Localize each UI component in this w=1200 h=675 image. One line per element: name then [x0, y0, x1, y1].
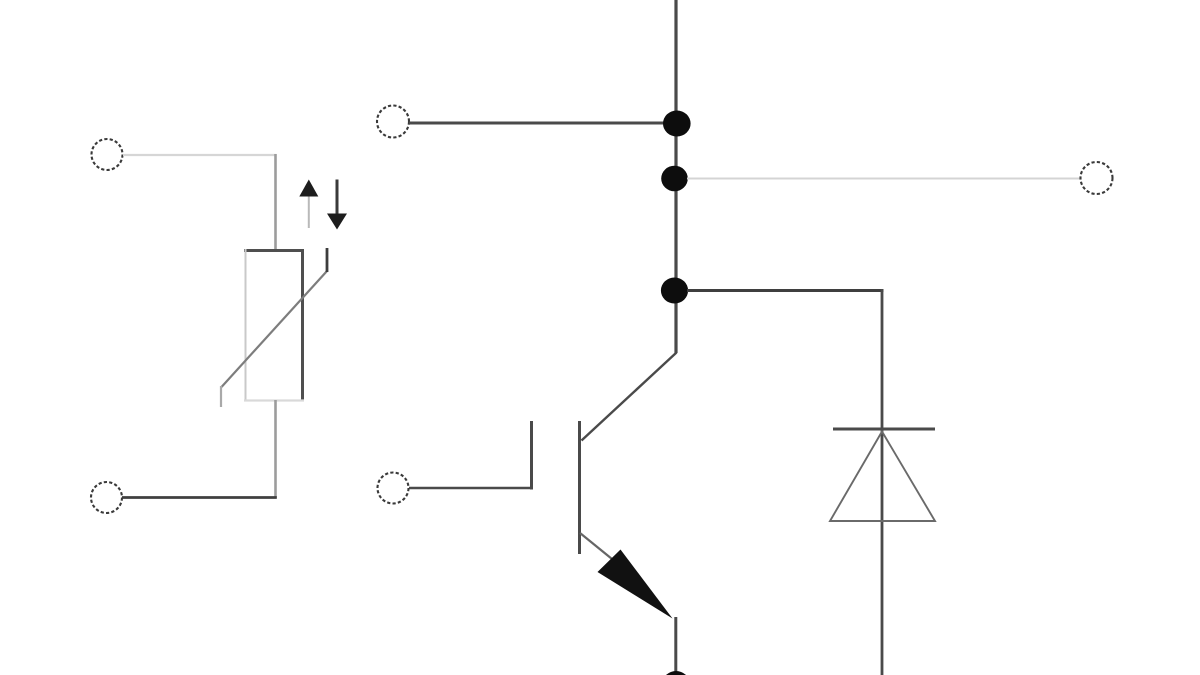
IGBT Q1: gate bar	[530, 421, 533, 490]
junction dot node E (bottom, clipped)	[663, 671, 690, 675]
IGBT Q1: emitter arrowhead	[598, 550, 673, 619]
wire: thermistor bottom vertical riser	[274, 400, 277, 498]
IGBT Q1: collector diagonal	[582, 353, 677, 441]
wire: thermistor top vertical riser	[274, 154, 277, 251]
wire: main collector bus vertical from top edge down to collector diagonal	[674, 0, 677, 353]
thermistor diagonal top tick	[326, 248, 329, 272]
wire: diode branch vertical down to bottom edge	[881, 289, 884, 675]
thermistor R1 body rectangle: top edge	[244, 249, 304, 252]
wire: thermistor top horizontal (light gray)	[123, 154, 277, 156]
junction dot node C3	[661, 278, 688, 304]
thermistor R1 body rectangle: right edge	[301, 249, 304, 401]
thermistor diagonal bottom tick	[220, 386, 222, 407]
IGBT Q1: emitter line	[580, 533, 612, 559]
thermistor diagonal stroke	[222, 271, 328, 387]
terminal X2 (thermistor bottom-left)	[91, 482, 122, 513]
wire: emitter vertical down to bottom edge	[674, 617, 677, 675]
arrow down (resistance indicator)	[336, 180, 339, 216]
wire: collector input horizontal	[409, 122, 670, 125]
wire: output horizontal (light gray) to right terminal	[687, 178, 1081, 180]
thermistor R1 body rectangle: left edge	[245, 249, 247, 401]
diode D1 cathode bar	[833, 428, 935, 431]
junction dot node C1	[663, 111, 691, 137]
wire: gate horizontal	[409, 487, 533, 490]
terminal X1 (thermistor top-left)	[92, 139, 123, 170]
terminal X4 (right output)	[1081, 162, 1113, 194]
terminal X5 (gate)	[378, 473, 409, 504]
wire: diode branch horizontal	[687, 289, 884, 292]
junction dot node C2	[661, 166, 688, 192]
terminal X3 (collector input, mid-left)	[377, 106, 409, 138]
wire: thermistor bottom horizontal	[122, 496, 277, 499]
arrow up (temperature indicator)	[308, 196, 310, 228]
thermistor R1 body rectangle: bottom edge	[244, 399, 304, 401]
IGBT Q1: main body bar	[578, 421, 581, 554]
diode D1 triangle (anode, pointing up)	[830, 432, 935, 522]
